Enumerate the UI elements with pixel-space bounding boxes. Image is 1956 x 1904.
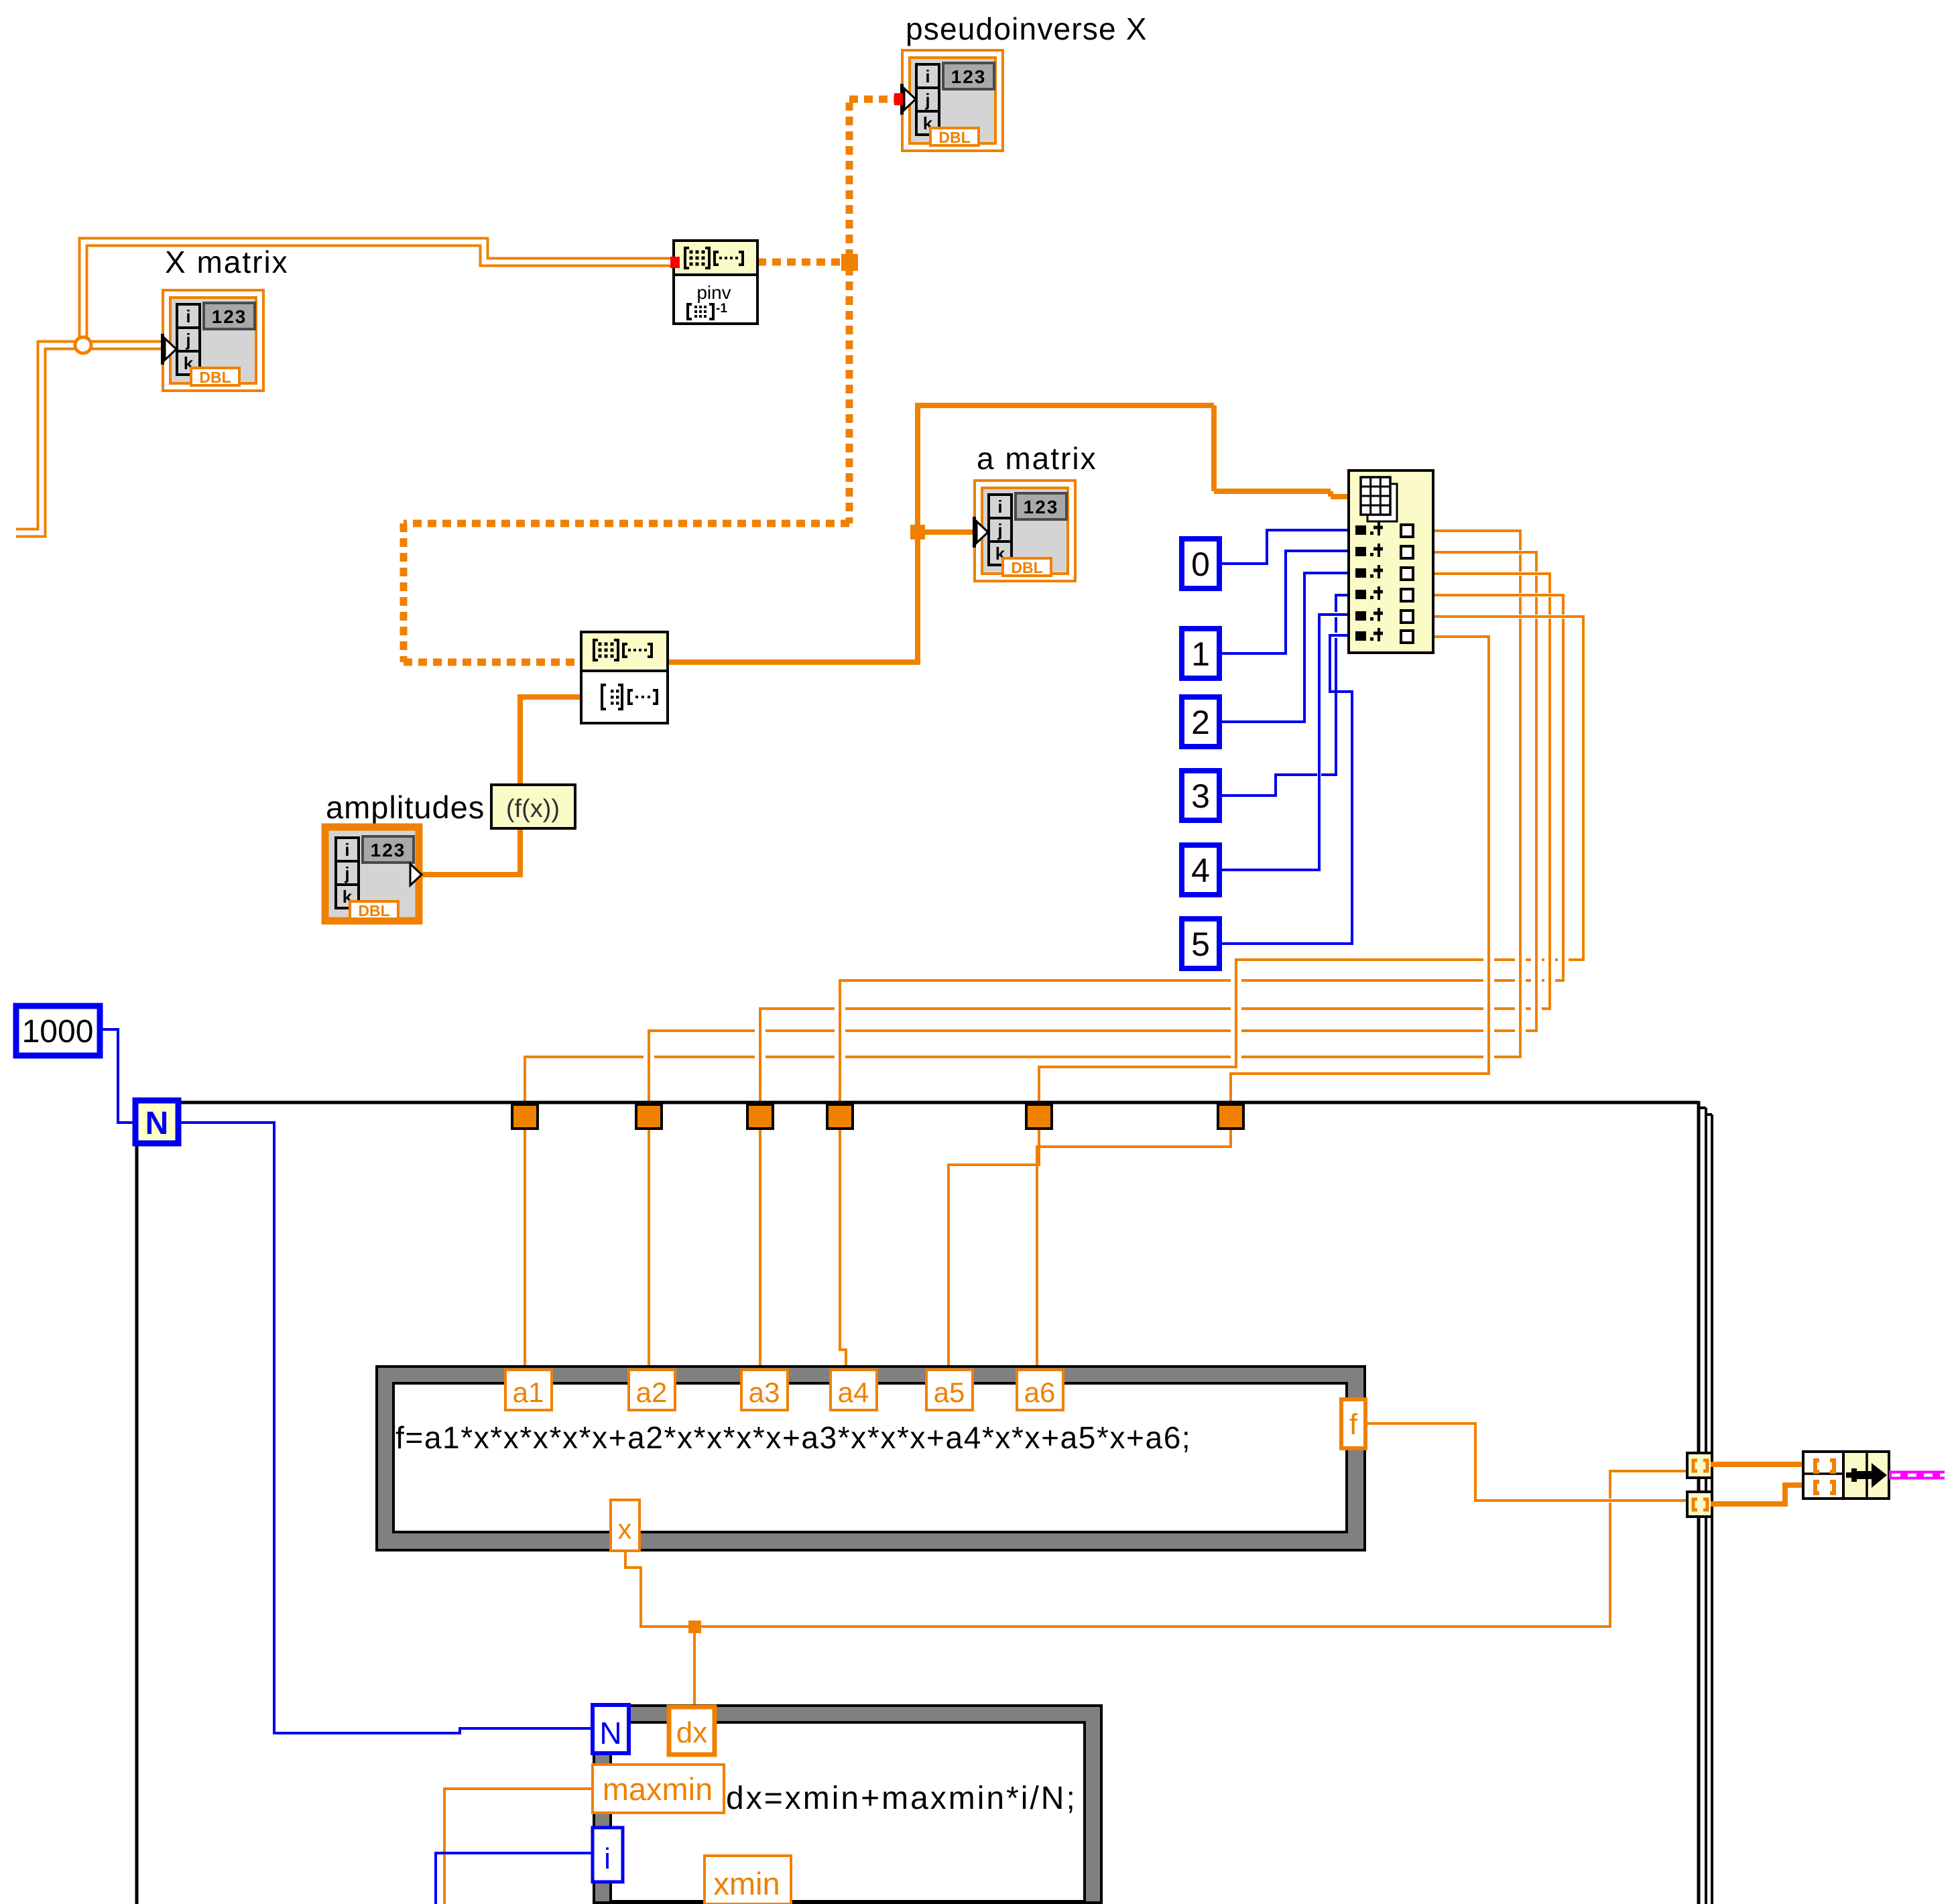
thick wire up leg — [915, 403, 920, 665]
junction dot on thick wire — [910, 525, 925, 540]
svg-text:j: j — [185, 330, 190, 350]
pseudoinverse X indicator — [900, 50, 1003, 151]
svg-text:N: N — [145, 1106, 169, 1141]
svg-text:f: f — [1349, 1408, 1358, 1441]
svg-text:a3: a3 — [749, 1377, 780, 1408]
X matrix indicator — [161, 290, 263, 391]
thick wire amplitudes up leg — [517, 694, 523, 877]
svg-text:amplitudes: amplitudes — [326, 789, 485, 825]
wire 2D-array junction to pinv input — [83, 242, 672, 338]
svg-text:1000: 1000 — [22, 1014, 94, 1050]
wire 2D-array to junction (left leg) — [16, 345, 76, 533]
dashed matrix wire pinv out to junction — [757, 259, 843, 266]
svg-text:123: 123 — [371, 840, 406, 861]
svg-text:f=a1*x*x*x*x*x+a2*x*x*x*x+a3*x: f=a1*x*x*x*x*x+a2*x*x*x*x+a3*x*x*x+a4*x*… — [395, 1420, 1191, 1455]
(f(x)) label box — [491, 785, 575, 828]
svg-text:i: i — [186, 306, 190, 326]
thick wire amplitudes out — [422, 872, 520, 877]
svg-text:dx: dx — [676, 1716, 707, 1749]
for loop count terminal N — [135, 1100, 178, 1143]
junction open circle on X matrix wire — [75, 337, 91, 353]
svg-text:5: 5 — [1191, 926, 1210, 963]
svg-text:maxmin: maxmin — [603, 1771, 713, 1807]
svg-text:a2: a2 — [636, 1377, 668, 1408]
index array node — [1349, 470, 1433, 653]
cluster wire (magenta with white dashes) — [1889, 1471, 1945, 1480]
svg-text:123: 123 — [1024, 497, 1059, 517]
svg-text:i: i — [604, 1842, 611, 1875]
dx node terminal maxmin — [593, 1765, 724, 1813]
svg-text:0: 0 — [1191, 546, 1210, 583]
svg-text:3: 3 — [1191, 777, 1210, 815]
thick wire branch to a matrix — [918, 529, 975, 535]
dx node terminal dx — [669, 1707, 715, 1755]
svg-text:-1: -1 — [716, 302, 727, 316]
svg-text:4: 4 — [1191, 852, 1210, 889]
pinv (pseudoinverse) node — [674, 241, 757, 324]
svg-text:DBL: DBL — [199, 369, 231, 386]
dx node terminal xmin — [705, 1856, 791, 1904]
blue integer wires — [99, 529, 1353, 1904]
svg-text:(f(x)): (f(x)) — [506, 795, 560, 823]
auto-index tunnel 2 on loop right edge — [1687, 1492, 1712, 1517]
thick wire down to index node — [1211, 405, 1217, 491]
svg-text:a4: a4 — [838, 1377, 869, 1408]
dx formula node frame — [594, 1706, 1101, 1903]
formula node frame — [377, 1367, 1365, 1550]
svg-text:123: 123 — [951, 66, 987, 87]
svg-text:i: i — [925, 66, 930, 86]
thick 1D array wire tunnel1 to bundle — [1711, 1462, 1805, 1467]
svg-text:x: x — [618, 1513, 632, 1545]
amplitudes control — [322, 824, 422, 924]
numeric constant 0 — [1182, 539, 1219, 588]
wire crossing gaps — [644, 958, 1569, 1060]
for loop frame — [135, 1101, 1712, 1904]
svg-text:pinv: pinv — [696, 282, 731, 303]
svg-text:1: 1 — [1191, 635, 1210, 673]
formula node input terminals a1-a6 — [505, 1370, 1063, 1410]
orange scalar wires (vertical runs) — [444, 529, 1610, 1904]
auto-index tunnel 1 on loop right edge — [1687, 1453, 1712, 1478]
matrix multiply node A x B — [581, 632, 668, 723]
svg-text:j: j — [924, 90, 930, 110]
thick wire top run — [918, 403, 1214, 408]
svg-text:i: i — [997, 497, 1002, 517]
wire 2D-array junction to X matrix — [90, 345, 169, 349]
formula node terminal f — [1341, 1399, 1365, 1448]
numeric constant 5 — [1182, 919, 1219, 968]
svg-text:2: 2 — [1191, 704, 1210, 741]
svg-text:X matrix: X matrix — [165, 245, 289, 279]
thick wire into index array node — [1331, 494, 1351, 499]
dashed matrix wire into pseudoinverse X — [849, 96, 897, 103]
svg-text:a5: a5 — [934, 1377, 965, 1408]
junction dot on dashed matrix wire — [841, 254, 858, 271]
thick wire multiply out — [668, 659, 918, 665]
svg-text:a6: a6 — [1024, 1377, 1056, 1408]
svg-text:DBL: DBL — [1011, 559, 1042, 576]
svg-text:j: j — [997, 520, 1002, 540]
formula node terminal x — [611, 1500, 639, 1551]
svg-text:a matrix: a matrix — [977, 441, 1097, 476]
svg-text:a1: a1 — [513, 1377, 544, 1408]
svg-text:123: 123 — [212, 306, 247, 327]
svg-text:DBL: DBL — [938, 129, 970, 146]
coercion dot at pseudoinverse X input — [894, 93, 903, 105]
thick wire jog — [1328, 491, 1333, 497]
dashed matrix wire left run — [404, 520, 849, 527]
svg-text:j: j — [344, 863, 349, 883]
numeric constant 2 — [1182, 697, 1219, 747]
dashed matrix wire into multiply node — [404, 659, 580, 666]
a matrix indicator — [973, 481, 1075, 581]
numeric constant 4 — [1182, 845, 1219, 895]
thick 1D array wire tunnel2 to bundle — [1711, 1485, 1805, 1504]
numeric constant 1 — [1182, 629, 1219, 678]
thick wire right run — [1214, 489, 1331, 494]
numeric constant 1000 — [16, 1006, 100, 1056]
svg-text:dx=xmin+maxmin*i/N;: dx=xmin+maxmin*i/N; — [726, 1781, 1077, 1816]
svg-text:i: i — [345, 840, 349, 860]
dashed matrix wire junction up — [846, 103, 853, 258]
coercion dot at pinv input — [670, 257, 680, 268]
dx node terminal i — [593, 1828, 623, 1882]
orange scalar wires (horizontal runs) — [443, 531, 1689, 1789]
numeric constant 3 — [1182, 771, 1219, 820]
svg-text:pseudoinverse X: pseudoinverse X — [906, 11, 1148, 46]
svg-text:N: N — [599, 1716, 621, 1751]
dashed matrix wire junction down — [846, 267, 853, 523]
svg-text:DBL: DBL — [358, 902, 389, 919]
svg-text:xmin: xmin — [713, 1866, 780, 1901]
dashed matrix wire down leg — [400, 523, 408, 662]
loop border tunnels (a1-a6 feeds) — [512, 1104, 1243, 1129]
dx node terminal N — [593, 1705, 629, 1753]
junction dot on x wire — [688, 1621, 701, 1633]
bundle node (build cluster) — [1803, 1452, 1889, 1499]
thick wire into multiply node lower input — [520, 694, 583, 700]
